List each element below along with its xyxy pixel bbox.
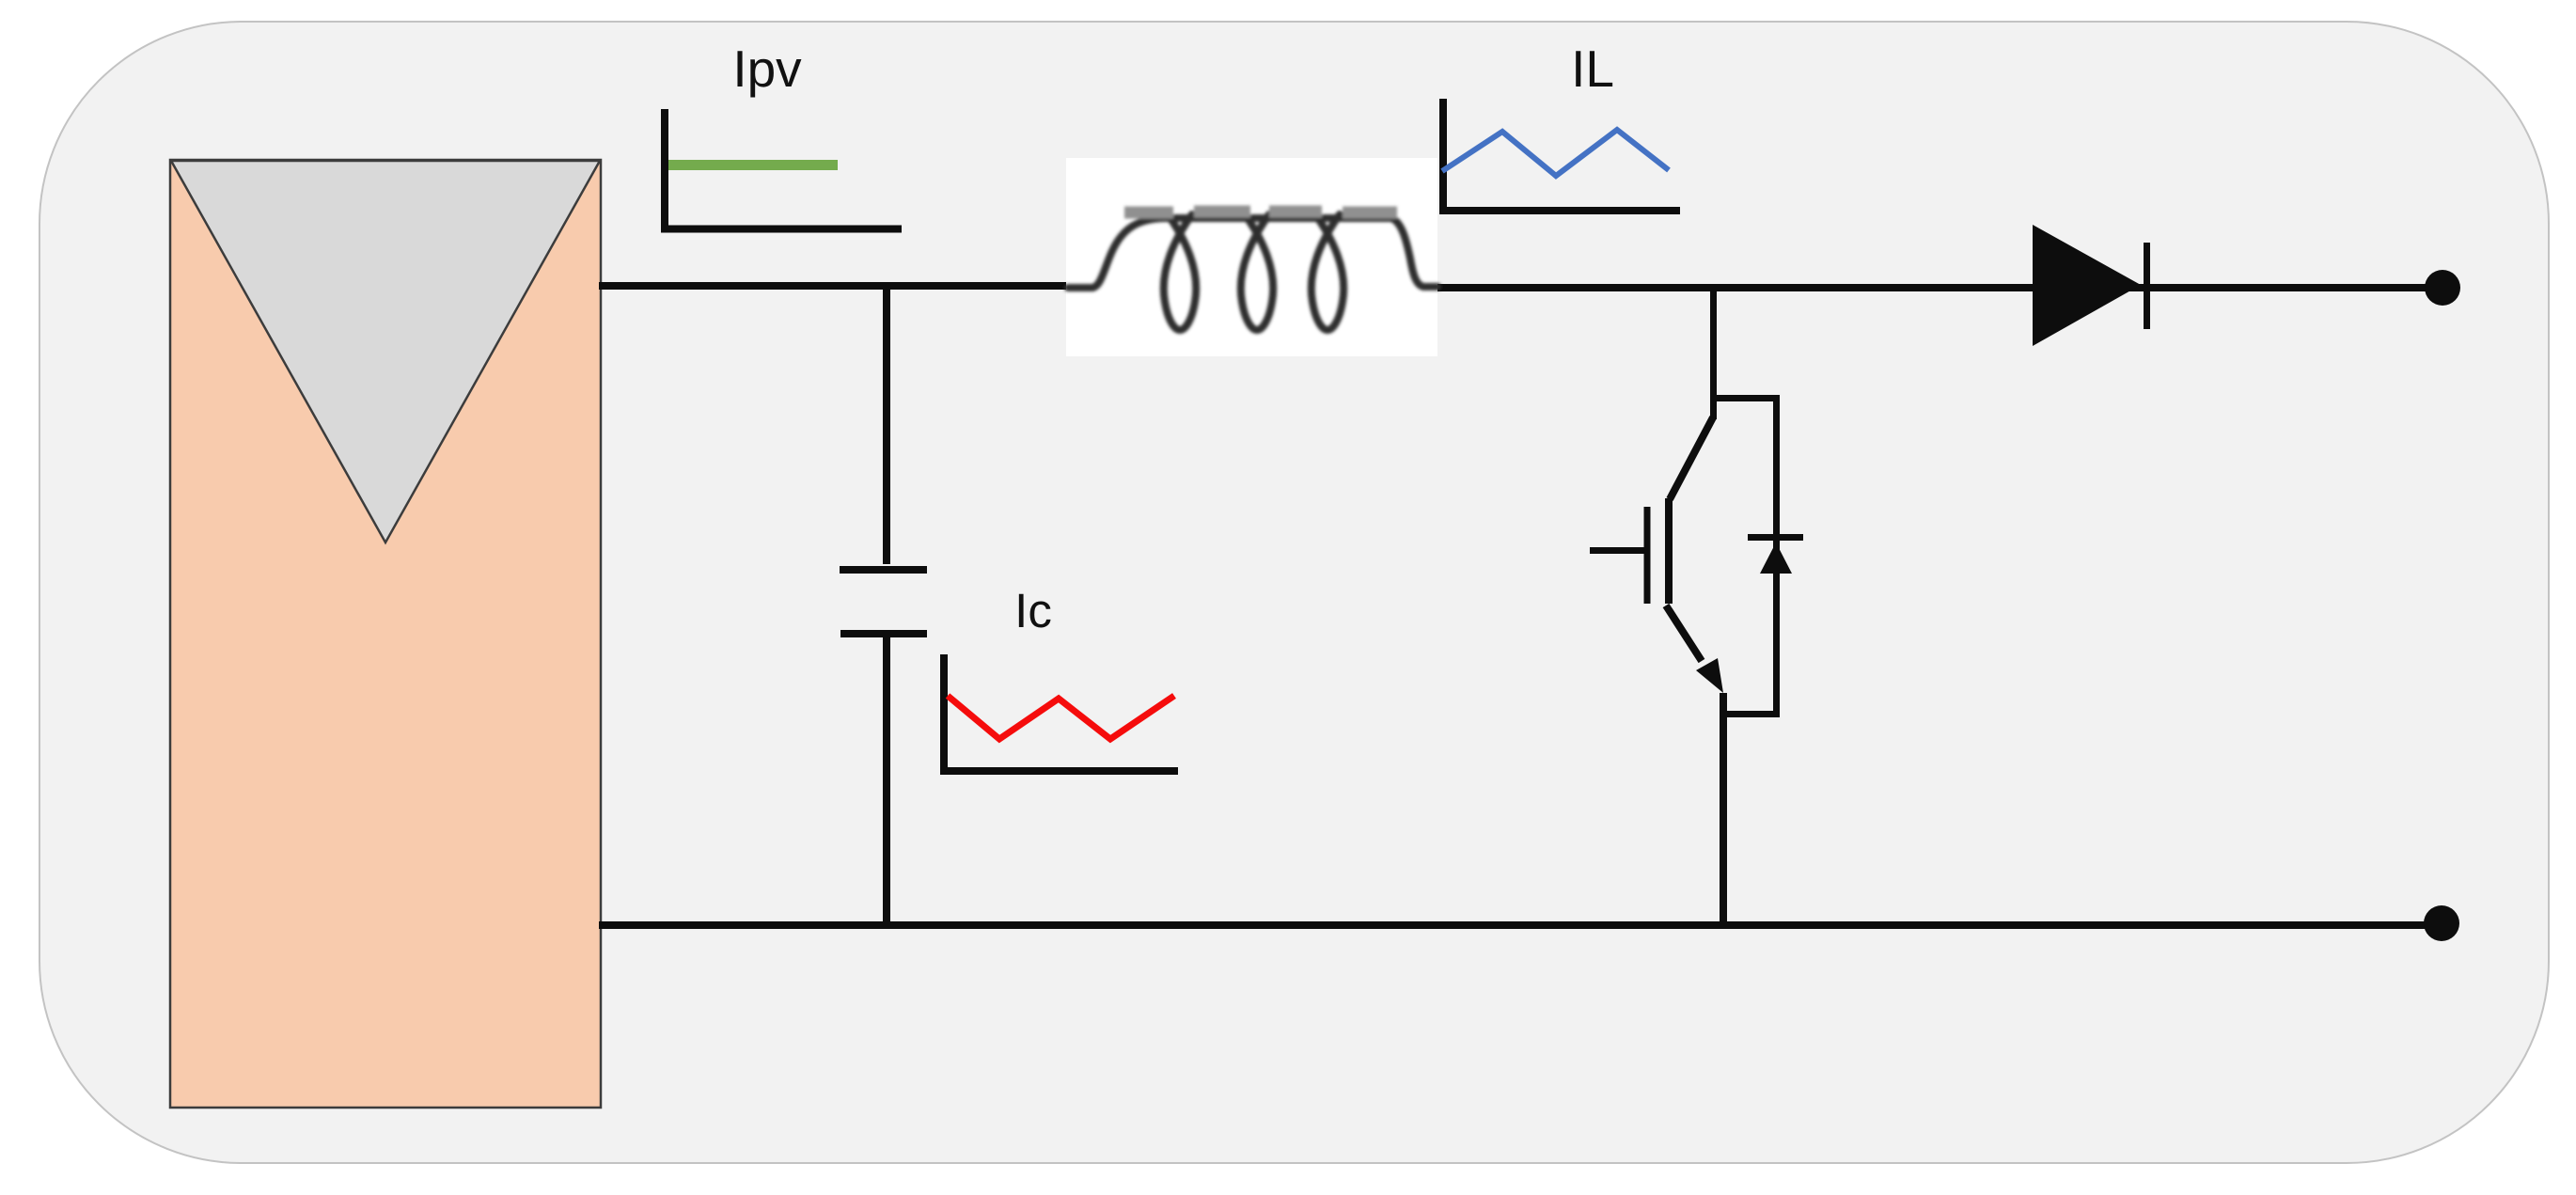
IGBT Q1 emitter lead to bottom rail xyxy=(1720,693,1727,925)
wire bottom rail xyxy=(599,921,2442,929)
svg-text:IL: IL xyxy=(1571,39,1614,98)
PV panel triangle xyxy=(171,161,600,542)
Ipv plot axes xyxy=(665,109,902,229)
anti-parallel diode triangle (pointing up) xyxy=(1760,542,1792,574)
anti-parallel diode cathode bar xyxy=(1748,534,1803,541)
IGBT Q1 body bar xyxy=(1665,498,1673,604)
output terminal dot bottom xyxy=(2424,905,2459,941)
capacitor C top plate xyxy=(840,566,927,574)
output diode D1 triangle xyxy=(2033,225,2141,346)
Ic red triangle wave xyxy=(948,696,1174,739)
svg-text:Ic: Ic xyxy=(1014,584,1052,637)
output terminal dot top xyxy=(2425,270,2460,306)
node: IGBT junction on top rail xyxy=(1709,284,1717,290)
capacitor C bottom lead xyxy=(883,637,890,925)
PV panel body xyxy=(170,160,601,1108)
Ipv green trace xyxy=(668,160,838,170)
svg-text:Ipv: Ipv xyxy=(732,39,802,98)
node: capacitor junction on top rail xyxy=(883,284,890,290)
Ic plot axes xyxy=(944,654,1178,771)
IL plot axes xyxy=(1443,99,1680,211)
anti-parallel diode branch wire xyxy=(1773,395,1780,717)
IGBT Q1 bottom connector to diode branch xyxy=(1720,711,1780,717)
IGBT Q1 collector diagonal xyxy=(1670,417,1713,499)
capacitor C top lead xyxy=(883,286,890,564)
inductor L white backing box xyxy=(1066,158,1437,356)
capacitor C bottom plate xyxy=(840,630,927,637)
output diode D1 cathode bar xyxy=(2144,243,2150,329)
IGBT Q1 gate lead xyxy=(1590,547,1644,554)
IGBT Q1 collector lead xyxy=(1710,288,1717,419)
IGBT Q1 emitter diagonal with arrow xyxy=(1666,605,1702,661)
IL blue triangle wave xyxy=(1442,130,1669,176)
IGBT Q1 gate bar xyxy=(1644,507,1651,604)
IGBT Q1 top connector to diode branch xyxy=(1710,395,1780,401)
wire top rail left (panel to inductor) xyxy=(599,282,1091,290)
inductor L coil drawing xyxy=(1068,212,1437,330)
wire top rail right (inductor to output dot) xyxy=(1436,284,2442,291)
